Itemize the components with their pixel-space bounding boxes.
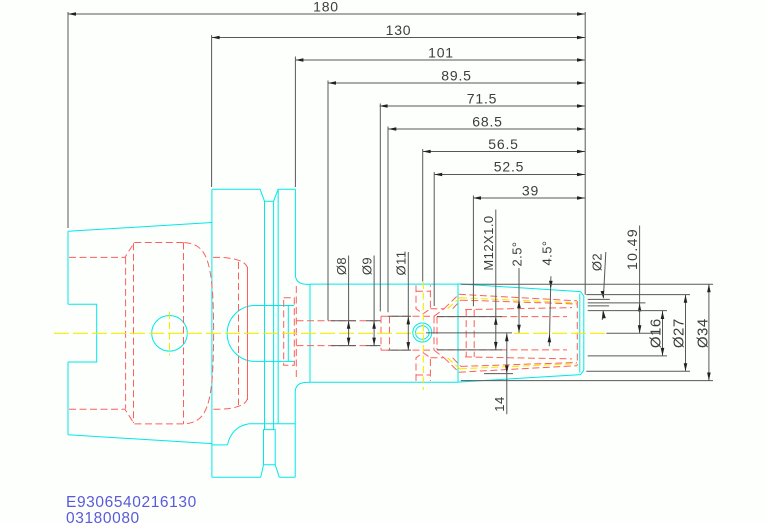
dia9 ext overlays bbox=[366, 321, 381, 346]
cone base edge bbox=[183, 243, 185, 424]
svg-text:101: 101 bbox=[428, 45, 454, 61]
ext line 71.5 left bbox=[379, 104, 381, 312]
shank side hole circle bbox=[152, 316, 188, 352]
shank taper bottom edge bbox=[68, 435, 212, 444]
counterbore second edge bbox=[239, 262, 248, 405]
flange right lower edge + fillet to neck bottom bbox=[295, 382, 310, 477]
collet gauge line top yellow bbox=[448, 298, 578, 309]
set screw bottom hole bbox=[416, 353, 430, 381]
thread bore top bbox=[437, 316, 567, 318]
ext line 101 left bbox=[294, 57, 296, 188]
PART-CYAN bbox=[68, 189, 584, 477]
collet gauge line bottom yellow bbox=[448, 358, 578, 369]
svg-text:2.5°: 2.5° bbox=[509, 241, 524, 266]
ext line common right datum bbox=[584, 12, 586, 295]
slot shelf line bbox=[249, 423, 295, 425]
ext line 39 left bbox=[472, 196, 474, 307]
thread relief edges bbox=[437, 310, 474, 357]
dim 68.5 line bbox=[388, 128, 585, 130]
dia8 ext overlays bbox=[331, 321, 356, 346]
svg-text:180: 180 bbox=[313, 0, 339, 15]
dim 56.5 line bbox=[423, 151, 585, 153]
pocket left edge bbox=[133, 243, 135, 423]
flange right edge + fillet to neck top bbox=[295, 189, 310, 284]
dia11 dimension bbox=[407, 252, 409, 350]
entry chamfer top bbox=[430, 294, 460, 316]
hollow sphere arc bbox=[184, 243, 213, 424]
4.5deg leader bbox=[549, 276, 551, 346]
collet taper top lines bbox=[459, 294, 577, 309]
svg-text:10.49: 10.49 bbox=[624, 228, 640, 270]
bore step second bbox=[389, 316, 391, 350]
2.5deg leader bbox=[518, 268, 520, 333]
10.49 dimension bbox=[639, 226, 641, 334]
svg-text:4.5°: 4.5° bbox=[539, 240, 554, 265]
pilot bore slot in flange bbox=[227, 306, 294, 362]
ext line 52.5 left bbox=[433, 172, 435, 306]
svg-text:68.5: 68.5 bbox=[472, 114, 502, 130]
drive slot bbox=[264, 430, 276, 465]
svg-text:Ø16: Ø16 bbox=[648, 318, 665, 348]
slot bottom line left bbox=[212, 444, 228, 446]
dia34 dimension bbox=[708, 284, 710, 380]
ext line 68.5 left bbox=[387, 127, 389, 313]
dim 52.5 line bbox=[434, 174, 585, 176]
svg-text:Ø27: Ø27 bbox=[671, 318, 688, 348]
pull screw circle outer bbox=[413, 323, 432, 342]
svg-text:39: 39 bbox=[522, 183, 539, 199]
pull screw circle inner bbox=[416, 326, 430, 340]
svg-text:Ø34: Ø34 bbox=[694, 318, 711, 348]
centerline black reference right bbox=[606, 332, 660, 334]
flange counterbore hidden bbox=[213, 257, 248, 409]
svg-text:Ø2: Ø2 bbox=[590, 253, 605, 271]
coolant tube end edge bbox=[287, 306, 289, 362]
PART-RED bbox=[69, 243, 577, 424]
coolant tube body hidden bbox=[284, 298, 295, 366]
dim 89.5 line bbox=[328, 82, 585, 84]
svg-text:03180080: 03180080 bbox=[66, 510, 140, 523]
nut bottom taper edge bbox=[458, 370, 584, 382]
dia11 ext overlays bbox=[388, 316, 411, 350]
shank bore hidden line upper with chamfer bbox=[69, 243, 184, 258]
svg-text:M12X1.0: M12X1.0 bbox=[481, 215, 496, 270]
set screw axis centerline bbox=[422, 282, 424, 390]
neck tangent edge bbox=[309, 284, 311, 382]
svg-text:E9306540216130: E9306540216130 bbox=[66, 494, 197, 511]
svg-text:89.5: 89.5 bbox=[441, 68, 471, 84]
dim 130 line bbox=[212, 37, 585, 39]
ext line 56.5 left bbox=[422, 149, 424, 282]
set screw top hole bbox=[416, 285, 430, 314]
M12 dimension bbox=[495, 210, 497, 350]
drive slot flare right bbox=[275, 465, 279, 477]
nose feature lines bbox=[588, 299, 646, 306]
ext line 89.5 left bbox=[327, 81, 329, 321]
main axis centerline yellow bbox=[54, 332, 424, 334]
V-groove edge lines bbox=[265, 189, 279, 429]
nut left joint line bbox=[457, 284, 459, 382]
neck hidden edge bbox=[295, 286, 297, 380]
CENTERLINES bbox=[54, 282, 606, 390]
flange top with V-groove bbox=[212, 189, 296, 201]
pocket right edge bbox=[433, 316, 435, 350]
ext line 180 left bbox=[67, 12, 69, 228]
pocket top line bbox=[381, 315, 434, 317]
bore line upper bbox=[297, 320, 381, 322]
bore step bbox=[380, 316, 382, 350]
bore line lower bbox=[297, 345, 381, 347]
svg-text:14: 14 bbox=[492, 396, 507, 411]
dim 101 line bbox=[295, 59, 585, 61]
svg-text:56.5: 56.5 bbox=[488, 136, 518, 152]
svg-text:Ø11: Ø11 bbox=[394, 251, 409, 276]
bore ring edge bbox=[125, 257, 127, 408]
side hole vertical centerline bbox=[169, 312, 171, 356]
svg-text:52.5: 52.5 bbox=[494, 159, 524, 175]
flange bottom face right bbox=[279, 476, 295, 478]
shank bore hidden line lower with chamfer bbox=[69, 409, 184, 424]
shank taper top edge bbox=[68, 223, 212, 232]
collet taper bottom lines bbox=[459, 357, 577, 372]
DIMENSIONS bbox=[68, 12, 713, 414]
entry chamfer bottom bbox=[430, 350, 460, 372]
neck bottom line bbox=[310, 381, 458, 383]
dia16 dimension bbox=[662, 311, 664, 356]
dim 14 line bbox=[506, 333, 508, 414]
flange left face bbox=[211, 189, 213, 477]
dia8 dimension bbox=[348, 256, 350, 346]
svg-text:71.5: 71.5 bbox=[467, 91, 497, 107]
drive slot flare left bbox=[261, 465, 264, 478]
dia27 dimension bbox=[685, 295, 687, 371]
shank face lower bbox=[67, 362, 69, 435]
dim 180 line bbox=[68, 13, 585, 15]
svg-text:Ø8: Ø8 bbox=[334, 257, 349, 275]
dia9 dimension bbox=[373, 256, 375, 346]
shank face upper bbox=[67, 231, 69, 304]
svg-text:130: 130 bbox=[386, 22, 412, 38]
nut nose face bbox=[583, 296, 585, 370]
ext line 130 left bbox=[211, 35, 213, 187]
slot arc bbox=[228, 424, 249, 445]
dim 39 line bbox=[473, 197, 585, 199]
collet nose edge bbox=[576, 301, 578, 366]
dim 71.5 line bbox=[380, 105, 585, 107]
flange bottom face left bbox=[212, 476, 261, 478]
pocket bottom line bbox=[381, 349, 434, 351]
svg-text:Ø9: Ø9 bbox=[359, 257, 374, 275]
nut top taper edge bbox=[458, 284, 584, 296]
thread bore bottom bbox=[437, 349, 567, 351]
centerline black reference left bbox=[426, 332, 512, 334]
shank face notch bbox=[68, 304, 97, 362]
neck top line bbox=[310, 283, 458, 285]
M12 ext segments bbox=[437, 317, 502, 350]
dia2 leader lines bbox=[603, 252, 605, 298]
nut nose inner ring edge bbox=[579, 294, 581, 373]
